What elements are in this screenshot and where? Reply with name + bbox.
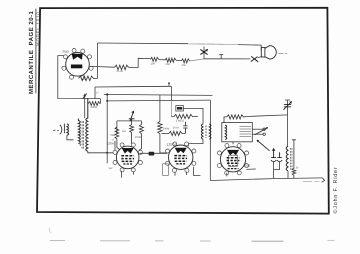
transformer T3 slug lines [240,127,252,137]
wire V1 plate to B+ line [97,42,188,45]
resistor R8 grid2 [139,121,144,150]
label R5 value [182,64,187,67]
transformer T2 secondary [209,124,211,140]
resistor R6 500 ohm [88,102,100,106]
svg-text:©John F. Rider: ©John F. Rider [333,167,339,214]
svg-text:25Z5: 25Z5 [62,50,69,54]
capacitor C2 coupling [140,152,168,156]
resistor R13 bleeder [292,140,296,178]
tube V3 12SQ7 det [166,142,196,173]
stray scan marks below frame [49,228,334,242]
tube V4 extra grid shading [228,155,239,168]
svg-text:25M: 25M [110,134,115,137]
wire left leg [116,121,118,134]
wire V3 right elbow [193,167,200,176]
label R4 value [166,63,171,66]
label R9 500M [163,127,170,130]
svg-text:12SA7: 12SA7 [107,141,116,145]
svg-text:12SQ7: 12SQ7 [167,142,177,146]
wire L2 bottom [287,171,289,178]
tube V1 25Z5 rectifier [62,49,93,80]
osc label box [176,106,184,111]
svg-text:560: 560 [166,63,171,66]
transformer T2 IF primary [201,124,203,140]
page label "MODEL 1010" [35,11,40,46]
label R6 500 [91,106,97,109]
wire screen vertical [159,95,161,122]
wire AVC vertical [106,95,108,164]
label output trans faint [197,43,225,45]
choke L2 filter [286,146,288,171]
capacitor C3 [183,122,187,133]
resistor R4 heater [165,58,176,62]
transformer T3 can [222,123,253,142]
svg-text:2 MEG: 2 MEG [176,119,184,122]
coil T1 core [82,121,83,149]
wire grid box top [117,120,141,122]
speaker SPK [261,46,276,59]
label R11 20M [173,126,179,129]
junction diagonal [83,94,87,99]
resistor R7 grid [130,121,134,144]
wire bus lower AVC [104,94,213,95]
transformer T3 winding [225,125,227,140]
capacitor C6 electrolytic [274,152,283,169]
wire R9 down [160,134,166,153]
coil T1 secondary [86,98,88,151]
label speaker [278,52,287,54]
wire top net [170,86,172,100]
label R10 2MEG [176,119,184,122]
wire V3 bottom stubs [175,172,187,176]
wire T3 out2 [252,133,265,135]
svg-text:MODEL 1010: MODEL 1010 [35,11,40,46]
wire V1 cathode drop [96,43,98,78]
resistor R5 heater [181,59,189,63]
capacitor C5 electrolytic [271,148,276,178]
tube V2 12SA7 converter [107,141,143,172]
svg-text:MERCANTILE PAGE 20-1: MERCANTILE PAGE 20-1 [28,10,35,94]
resistor R1 surge [79,76,98,81]
svg-text:470M: 470M [135,136,141,139]
svg-text:500M: 500M [163,127,170,130]
coil T1 primary [78,119,80,144]
antenna coupling arc [60,125,62,134]
switch S1 arm2 [255,127,268,135]
margin rule line [35,9,37,94]
wire L1 bottom [67,135,74,139]
label SW [109,167,114,170]
svg-text:250: 250 [122,130,127,133]
label 47 node [112,139,115,142]
wire heater [176,59,181,61]
resistor R12 above can [224,115,246,123]
trimmer C1 [129,111,135,122]
svg-text:50L6: 50L6 [243,163,250,167]
coil L1 antenna [67,124,69,136]
tube V4 50L6 output [217,144,250,175]
wire T3 out1 [252,128,265,130]
switch S1 arm1 [257,140,270,151]
wire B+ branch line [106,100,210,102]
resistor R9 500M [158,122,162,134]
wire faded B+ line [188,43,238,46]
wire V4 top stub [232,142,234,144]
svg-text:20 M: 20 M [173,126,179,129]
trimmer C4 padder [283,100,291,147]
wire heater [159,59,165,61]
credit "John F. Rider" [333,167,339,214]
transformer T2 core [206,126,207,139]
wire avc down [170,101,172,117]
wire osc top [84,94,86,118]
resistor R14 25M [110,127,119,139]
wire V2 bottom stubs [122,171,134,178]
label R3 value [151,62,156,65]
wire T1 to V2 [88,151,115,153]
label line faint [303,180,320,182]
wire bus upper [95,85,171,88]
svg-text:100: 100 [151,62,156,65]
wire T2 bottom lead [189,139,203,146]
label tiny 47 [96,91,99,94]
stub T on line [219,55,223,59]
resistor R2 heater dropper [115,65,129,70]
wire box to IF1 [183,108,203,123]
wire heater step [129,58,151,67]
wire corner to R6 [99,99,101,104]
junction dot [106,152,108,154]
wire left leg lower [117,139,120,150]
wire bus link [94,87,96,99]
antenna bar [63,124,65,134]
line cord hook [322,178,325,182]
wire V1 heater line [90,65,114,68]
label R7 [122,130,127,133]
antenna lead dashes [53,129,59,131]
wire pin feed [114,141,116,151]
stub node [168,82,170,86]
wire to speaker field [238,45,261,51]
wire T1 primary bottom stub [79,144,81,146]
wire bottom return [210,178,322,181]
resistor R10 2meg [171,114,198,118]
wire V4 right pin [246,168,255,170]
wire V1 pin to left drop [58,56,101,99]
wire plate vertical [209,100,211,180]
bracket below V3 [163,164,169,176]
svg-text:500Ω: 500Ω [91,106,97,109]
resistor R3 heater [150,57,158,61]
svg-text:25 35: 25 35 [117,70,124,73]
label R8 470M [135,136,141,139]
tap arrow pilot light [200,47,207,59]
wire V4 bottom stubs [226,173,228,177]
resistor R11 20M [162,131,186,135]
wire B minus run [204,58,250,60]
wire heater tail [190,59,204,61]
page label "MERCANTILE PAGE 20-1" [28,10,35,94]
wire to trimmer [246,115,287,117]
label R13 [296,167,299,170]
junction dot [106,93,108,95]
label R2 value [117,70,124,73]
connector X voice coil [251,56,261,61]
svg-text:250: 250 [182,64,187,67]
choke L2 core [291,148,292,170]
